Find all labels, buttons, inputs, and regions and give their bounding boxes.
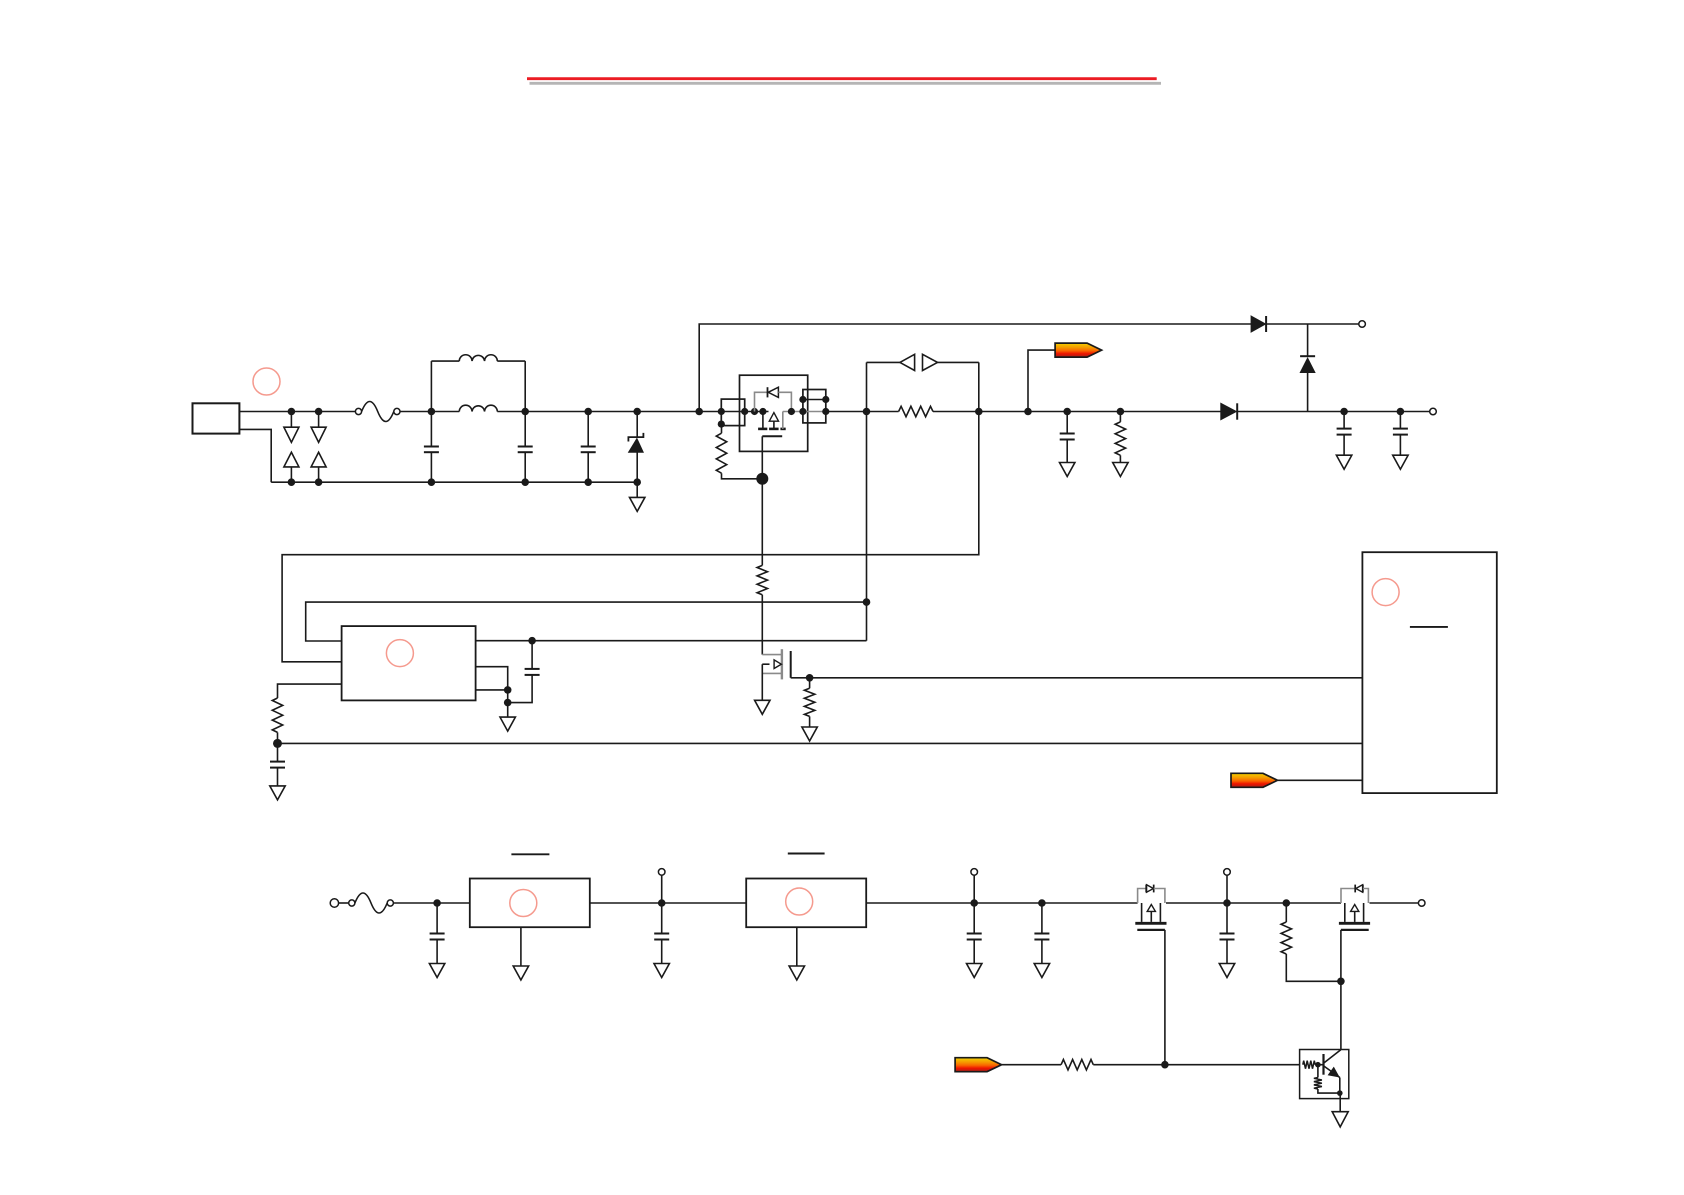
connector J1 bbox=[193, 403, 240, 433]
supervisor U3 bbox=[1362, 552, 1496, 793]
ground below Q2 bbox=[755, 700, 770, 714]
Q3 transistor bbox=[1322, 1054, 1324, 1075]
wire U4 to U5 bbox=[590, 902, 746, 904]
terminal tap 1 bbox=[661, 875, 663, 903]
wire J1 pin1 to fuse bbox=[239, 411, 355, 413]
ground below U2 bbox=[507, 703, 509, 718]
transient suppressor pair bbox=[866, 362, 868, 411]
wire tap to M2 bbox=[1227, 902, 1341, 904]
gate node bbox=[806, 674, 814, 682]
resistor R2 bbox=[899, 406, 933, 416]
feedback wire upper bbox=[282, 412, 979, 662]
surge arrester SA2 bbox=[318, 412, 320, 428]
resistor R6 bbox=[809, 678, 811, 689]
ground below C5 bbox=[1336, 455, 1351, 469]
capacitor C8 bbox=[531, 641, 533, 669]
net flag HOT1 bbox=[1055, 343, 1102, 357]
startup resistor R5 bbox=[761, 479, 763, 566]
wire flag PFC to U3 bbox=[1278, 779, 1363, 781]
mosfet M1 channel bbox=[1141, 903, 1143, 922]
resistor R3 bbox=[1119, 412, 1121, 422]
main line into block bbox=[721, 411, 768, 413]
callout bubble 5 bbox=[786, 888, 813, 915]
ground below C7 bbox=[270, 786, 285, 800]
main line to output diode bbox=[1028, 411, 1221, 413]
diode D3 bbox=[1307, 324, 1309, 356]
Q1 channel bbox=[762, 412, 764, 429]
controller U2 bbox=[342, 626, 476, 700]
capacitor C10 bbox=[661, 903, 663, 934]
U4 label underline bbox=[511, 853, 549, 855]
Q1 gate bbox=[762, 435, 782, 437]
terminal tap 2 bbox=[973, 875, 975, 903]
callout bubble 2 bbox=[386, 640, 413, 667]
net flag EN bbox=[955, 1058, 1002, 1072]
title underline bbox=[527, 77, 1157, 80]
ground below Q3 bbox=[1339, 1093, 1341, 1112]
sense wire bbox=[803, 399, 826, 401]
U2 pin3 wire bbox=[278, 684, 342, 698]
HV sense vertical bbox=[866, 412, 868, 641]
U2 output wire bbox=[476, 640, 867, 642]
net flag PFC bbox=[1231, 773, 1278, 787]
bottom rail long bbox=[278, 742, 1363, 744]
capacitor C4 bbox=[1066, 412, 1068, 434]
diode D4 bbox=[1221, 403, 1237, 419]
wire up to output diode bbox=[699, 324, 1251, 412]
capacitor C5 bbox=[1343, 412, 1345, 429]
resistor R7 bbox=[1285, 903, 1287, 922]
feedback wire lower bbox=[306, 602, 867, 641]
regulator U5 bbox=[746, 879, 866, 928]
ground below C6 bbox=[1393, 455, 1408, 469]
diode D2 top bbox=[1251, 316, 1265, 332]
node C9 bbox=[433, 899, 441, 907]
Q3 base resistor bbox=[1303, 1061, 1315, 1069]
capacitor C11 bbox=[973, 903, 975, 934]
callout bubble 1 bbox=[253, 368, 280, 395]
input terminal bottom bbox=[330, 899, 338, 907]
zener diode DZ1 bbox=[636, 412, 638, 438]
fuse F1 bbox=[355, 408, 361, 414]
wire U5 to M1 bbox=[866, 902, 1137, 904]
surge arrester SA1 bbox=[290, 412, 292, 428]
left sense box bbox=[721, 399, 744, 426]
capacitor C13 bbox=[1226, 903, 1228, 934]
output terminal top bbox=[1359, 321, 1366, 328]
ground below DZ1 bbox=[636, 482, 638, 497]
ground below R6 bbox=[802, 727, 817, 741]
wire M2 to terminal bbox=[1370, 902, 1419, 904]
regulator U4 bbox=[470, 879, 590, 928]
digital transistor Q3 box bbox=[1300, 1050, 1349, 1099]
U2 gnd pins bbox=[476, 667, 508, 703]
wire M1 to tap bbox=[1166, 902, 1224, 904]
node bottom rail left bbox=[273, 739, 282, 748]
Q3 pulldown resistor bbox=[1317, 1065, 1319, 1078]
switch block outer box bbox=[740, 375, 808, 451]
ground below R3 bbox=[1113, 463, 1128, 477]
right sense box bbox=[803, 390, 826, 423]
mosfet M1 gate bbox=[1137, 929, 1165, 931]
common-mode choke L1 bbox=[430, 361, 432, 411]
capacitor C7 bbox=[277, 743, 279, 761]
capacitor C12 bbox=[1041, 903, 1043, 934]
resistor R4 bbox=[272, 698, 282, 732]
U5 ground pin bbox=[796, 927, 798, 966]
main line after choke bbox=[525, 411, 721, 413]
capacitor CX3 bbox=[587, 412, 589, 447]
fuse F2 bbox=[349, 900, 355, 906]
U4 ground pin bbox=[520, 927, 522, 966]
node S big bbox=[756, 473, 768, 485]
output terminal bottom bbox=[1418, 900, 1425, 907]
gate wire to U3 bbox=[810, 677, 1363, 679]
callout bubble 4 bbox=[510, 890, 537, 917]
resistor R8 bbox=[1061, 1060, 1093, 1070]
resistor R1 bbox=[721, 424, 723, 433]
wire J1 pin2 to bottom rail bbox=[239, 429, 271, 482]
wire flag EN bbox=[1002, 1064, 1062, 1066]
capacitor C6 bbox=[1399, 412, 1401, 429]
U5 label underline bbox=[788, 853, 825, 855]
title underline shadow bbox=[530, 82, 1162, 85]
mosfet M2 channel bbox=[1344, 903, 1346, 922]
mosfet M2 gate bbox=[1341, 929, 1369, 931]
U3 label underline bbox=[1410, 626, 1448, 628]
bottom rail bbox=[271, 481, 637, 483]
wire to flag HOT1 bbox=[1028, 350, 1055, 411]
ground below C4 bbox=[1060, 463, 1075, 477]
mosfet M1 body diode bbox=[1138, 889, 1146, 904]
left box lower node bbox=[718, 421, 725, 428]
capacitor C9 bbox=[436, 903, 438, 934]
Q1 body diode bbox=[755, 392, 768, 411]
output terminal main bbox=[1430, 408, 1437, 415]
terminal tap 3 bbox=[1226, 875, 1228, 903]
main line after block bbox=[826, 411, 899, 413]
capacitor CX2 bbox=[524, 412, 526, 447]
capacitor CX1 bbox=[430, 412, 432, 447]
mosfet Q2 bbox=[762, 654, 782, 656]
mosfet M2 body diode bbox=[1341, 889, 1355, 904]
node at top tap bbox=[695, 408, 703, 416]
callout bubble 3 bbox=[1372, 579, 1399, 606]
